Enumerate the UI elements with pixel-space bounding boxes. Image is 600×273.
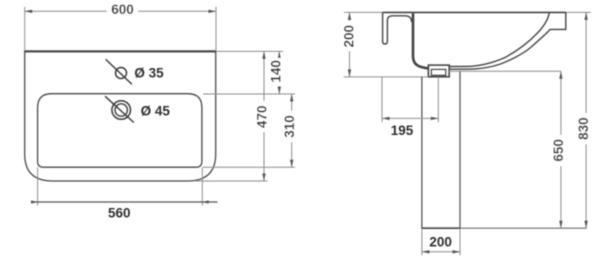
node: 560 left arrow [31, 200, 37, 203]
node: 140 label [271, 58, 283, 86]
wire: floor line [460, 227, 587, 229]
wire: 830 dimension line [585, 12, 587, 228]
wire: 195 dimension line [382, 117, 438, 119]
node: waste fitting inner rect [431, 69, 445, 75]
wire: 200 bottom extension line left [421, 228, 423, 255]
wire: faucet hole slash [106, 59, 132, 84]
node: bowl back wall line [413, 13, 429, 68]
node: 140 top arrow [278, 51, 281, 59]
node: 310 label [284, 111, 296, 142]
node: 200 left label [343, 21, 355, 51]
svg-text:470: 470 [254, 106, 269, 129]
node: back apron hook [383, 12, 412, 44]
node: 200 bottom right arrow [453, 250, 461, 253]
node: 200 top arrow [348, 12, 351, 20]
wire: 195 right extension line at drain centre [437, 77, 439, 122]
svg-text:650: 650 [551, 139, 566, 162]
node: 830 bottom arrow [584, 221, 587, 229]
node: bullnose front rim and bowl underside [449, 12, 566, 69]
wire: 650 dimension line [560, 71, 562, 228]
node: 600 label [107, 4, 138, 16]
wire: extension line at inner bottom right [203, 166, 295, 168]
svg-text:560: 560 [108, 205, 131, 220]
wire: 830 top extension line [566, 11, 591, 13]
node: 470 top arrow [262, 51, 265, 59]
svg-text:195: 195 [391, 123, 414, 138]
svg-text:830: 830 [576, 117, 591, 140]
wire: 560 extension line right [201, 167, 203, 205]
svg-text:200: 200 [341, 25, 356, 48]
node: inner basin outline [38, 94, 202, 168]
node: drain hole inner circle [115, 104, 127, 116]
wire: 200 bottom dimension line [422, 251, 460, 253]
wire: basin top edge thick [24, 50, 216, 52]
node: 600 right arrow [209, 10, 217, 13]
node: 470 bottom arrow [262, 174, 265, 182]
wire: 560 extension line left [37, 167, 39, 205]
node: pedestal right edge [459, 71, 461, 228]
node: 470 label [256, 101, 268, 132]
node: 310 bottom arrow [290, 160, 293, 168]
wire: 310 dimension line [291, 94, 293, 167]
wire: 200 bottom extension line right [459, 228, 461, 255]
wire: 140 dimension line [278, 51, 280, 94]
wire: extension line at basin bottom right [195, 180, 268, 182]
wire: deck bottom extension line left of drain [344, 76, 429, 78]
node: pedestal bottom edge [421, 227, 460, 229]
wire: extension line at basin top right [216, 50, 283, 52]
wire: 200 dimension line vertical [349, 12, 351, 77]
node: 200 bottom arrow [348, 69, 351, 77]
node: 140 bottom arrow [278, 87, 281, 95]
wire: 560 dimension line [31, 201, 218, 203]
svg-text:Ø 45: Ø 45 [141, 104, 171, 119]
node: basin outer outline [25, 51, 216, 181]
node: basin top surface line [383, 11, 566, 13]
wire: 600 dim extension line right [215, 7, 217, 50]
node: 830 top arrow [584, 12, 587, 20]
svg-text:140: 140 [269, 60, 284, 83]
wire: 195 left extension line [381, 77, 383, 122]
node: 650 bottom arrow [559, 221, 562, 229]
node: 600 left arrow [25, 10, 33, 13]
node: 560 right arrow [202, 200, 208, 203]
node: 195 left arrow [382, 117, 390, 120]
node: bowl inner surface curve [449, 12, 549, 66]
node: 830 label [578, 113, 590, 144]
node: 200 bottom left arrow [422, 250, 430, 253]
svg-text:600: 600 [111, 2, 134, 17]
node: waste fitting outer rect [428, 65, 449, 77]
wire: drain hole slash [105, 96, 134, 122]
svg-text:310: 310 [282, 115, 297, 138]
node: drain hole outer circle [112, 101, 131, 120]
wire: extension line at inner top right [203, 93, 295, 95]
wire: 200 top extension line [344, 11, 382, 13]
svg-text:200: 200 [429, 235, 452, 250]
wire: 600 dim extension line left [24, 7, 26, 50]
node: faucet hole circle [116, 68, 127, 79]
node: 650 top arrow [559, 71, 562, 79]
node: 195 right arrow [431, 117, 439, 120]
wire: 470 dimension line [263, 51, 265, 181]
wire: 650 top extension line right of drain [449, 70, 561, 72]
node: pedestal left edge [421, 77, 423, 228]
svg-text:Ø 35: Ø 35 [134, 66, 164, 81]
node: 310 top arrow [290, 94, 293, 102]
wire: 600 dimension line [25, 10, 216, 12]
node: 650 label [553, 135, 565, 166]
